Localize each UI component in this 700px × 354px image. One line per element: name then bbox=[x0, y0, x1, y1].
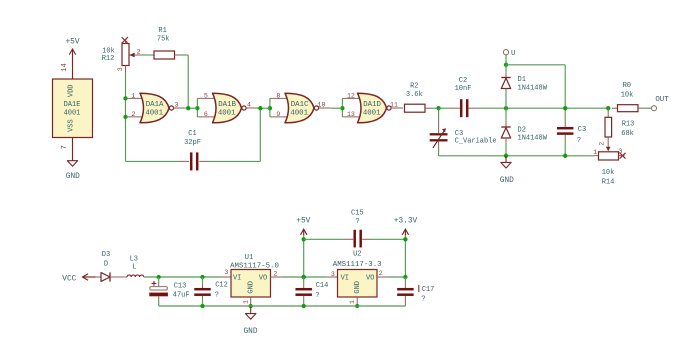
svg-text:U2: U2 bbox=[353, 250, 361, 258]
svg-text:?: ? bbox=[577, 137, 581, 145]
svg-text:4001: 4001 bbox=[218, 110, 236, 118]
svg-text:4: 4 bbox=[247, 102, 251, 109]
svg-text:+5V: +5V bbox=[65, 39, 79, 47]
svg-text:VI: VI bbox=[341, 274, 349, 282]
svg-text:4001: 4001 bbox=[64, 109, 81, 117]
svg-text:L3: L3 bbox=[130, 256, 138, 264]
svg-text:U1: U1 bbox=[245, 254, 253, 262]
svg-text:5: 5 bbox=[204, 92, 208, 99]
svg-text:1: 1 bbox=[593, 149, 597, 156]
svg-text:+5V: +5V bbox=[296, 217, 310, 225]
svg-text:2: 2 bbox=[273, 270, 277, 277]
svg-text:10nF: 10nF bbox=[455, 85, 472, 93]
svg-text:2: 2 bbox=[379, 270, 383, 277]
svg-text:9: 9 bbox=[276, 111, 280, 118]
svg-text:4001: 4001 bbox=[145, 110, 163, 118]
svg-text:GND: GND bbox=[500, 177, 514, 185]
svg-text:DA1B: DA1B bbox=[218, 101, 236, 109]
svg-text:32pF: 32pF bbox=[184, 139, 201, 147]
svg-text:AMS1117-5.0: AMS1117-5.0 bbox=[230, 262, 279, 270]
svg-text:C1: C1 bbox=[188, 130, 196, 138]
svg-text:D2: D2 bbox=[518, 127, 526, 135]
svg-text:C3: C3 bbox=[578, 126, 586, 134]
svg-text:1: 1 bbox=[131, 92, 135, 99]
svg-text:C14: C14 bbox=[316, 282, 329, 290]
svg-text:10k: 10k bbox=[602, 169, 615, 177]
svg-text:VO: VO bbox=[366, 274, 374, 282]
svg-text:8: 8 bbox=[276, 92, 280, 99]
svg-text:C12: C12 bbox=[215, 281, 228, 289]
svg-text:7: 7 bbox=[61, 145, 69, 149]
svg-text:47uF: 47uF bbox=[173, 292, 190, 300]
svg-text:DA1A: DA1A bbox=[146, 101, 164, 109]
svg-text:VCC: VCC bbox=[62, 275, 76, 283]
svg-text:3: 3 bbox=[175, 102, 179, 109]
svg-text:1: 1 bbox=[242, 300, 249, 304]
svg-text:3: 3 bbox=[619, 148, 623, 155]
svg-text:GND: GND bbox=[247, 281, 255, 294]
svg-text:3.6k: 3.6k bbox=[406, 91, 423, 99]
svg-text:4001: 4001 bbox=[363, 110, 381, 118]
svg-text:6: 6 bbox=[204, 111, 208, 118]
svg-text:68k: 68k bbox=[621, 130, 634, 138]
svg-text:C_Variable: C_Variable bbox=[455, 137, 497, 145]
svg-text:U: U bbox=[511, 50, 515, 58]
svg-text:GND: GND bbox=[354, 281, 362, 294]
svg-text:D3: D3 bbox=[102, 251, 110, 259]
svg-text:R0: R0 bbox=[623, 82, 631, 90]
svg-text:VI: VI bbox=[233, 274, 241, 282]
svg-text:1: 1 bbox=[349, 300, 356, 304]
svg-text:R12: R12 bbox=[102, 55, 115, 63]
svg-text:DA1C: DA1C bbox=[291, 101, 309, 109]
svg-text:C15: C15 bbox=[351, 210, 364, 218]
svg-text:12: 12 bbox=[347, 92, 355, 99]
svg-text:DA1D: DA1D bbox=[363, 101, 381, 109]
svg-text:3: 3 bbox=[224, 269, 228, 276]
svg-text:1N4148W: 1N4148W bbox=[518, 84, 548, 92]
svg-text:4001: 4001 bbox=[290, 110, 308, 118]
svg-text:VO: VO bbox=[259, 274, 267, 282]
svg-text:GND: GND bbox=[243, 328, 257, 336]
svg-text:C17: C17 bbox=[422, 286, 435, 294]
svg-text:75k: 75k bbox=[157, 36, 170, 44]
svg-text:2: 2 bbox=[131, 111, 135, 118]
svg-text:10: 10 bbox=[318, 102, 326, 109]
svg-text:R14: R14 bbox=[602, 179, 615, 187]
svg-text:GND: GND bbox=[66, 173, 80, 181]
svg-text:11: 11 bbox=[390, 102, 398, 109]
svg-text:R1: R1 bbox=[158, 27, 166, 35]
svg-text:D1: D1 bbox=[518, 76, 526, 84]
svg-text:?: ? bbox=[421, 296, 425, 304]
svg-text:C13: C13 bbox=[174, 283, 187, 291]
svg-text:OUT: OUT bbox=[655, 96, 669, 104]
svg-text:+3.3V: +3.3V bbox=[394, 217, 418, 225]
svg-text:D: D bbox=[104, 261, 108, 269]
svg-text:AMS1117-3.3: AMS1117-3.3 bbox=[333, 261, 382, 269]
svg-text:VSS: VSS bbox=[68, 119, 76, 132]
svg-text:L: L bbox=[132, 264, 136, 272]
svg-text:R2: R2 bbox=[410, 83, 418, 91]
svg-text:?: ? bbox=[215, 292, 219, 300]
svg-text:13: 13 bbox=[347, 111, 355, 118]
svg-text:VDD: VDD bbox=[68, 84, 76, 97]
svg-text:?: ? bbox=[355, 218, 359, 226]
svg-text:10k: 10k bbox=[621, 91, 634, 99]
svg-text:14: 14 bbox=[61, 63, 69, 71]
svg-text:3: 3 bbox=[117, 67, 124, 71]
svg-text:?: ? bbox=[315, 292, 319, 300]
svg-text:2: 2 bbox=[137, 48, 141, 55]
svg-text:DA1E: DA1E bbox=[64, 101, 81, 109]
svg-text:2: 2 bbox=[598, 142, 605, 146]
svg-text:1N4148W: 1N4148W bbox=[518, 135, 548, 143]
svg-text:R13: R13 bbox=[622, 120, 635, 128]
